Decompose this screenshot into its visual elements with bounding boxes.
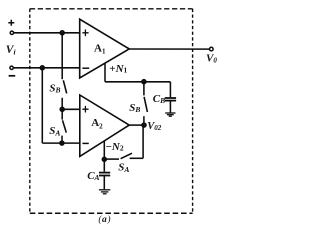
junction node N2 / CA — [102, 157, 106, 161]
output terminal Vo — [210, 47, 214, 51]
wire bottom rail to A2 inverting input — [42, 142, 80, 144]
svg-text:A1: A1 — [94, 42, 106, 55]
switch SB-right blade — [144, 97, 147, 112]
wire V02 drop to SA-right — [142, 125, 144, 158]
wire A1 output to Vo terminal — [129, 48, 209, 50]
dashed box left side — [29, 9, 31, 213]
switch SB-right top lead — [143, 82, 145, 96]
svg-text:V0: V0 — [206, 52, 217, 64]
wire Vi+ to A1 noninverting input — [14, 32, 80, 34]
junction node Vi- / left drop — [40, 66, 44, 70]
svg-text:Vi: Vi — [6, 44, 17, 56]
switch SB-left top lead — [61, 33, 63, 79]
wire N2 aux vertical from A2 bottom edge — [103, 141, 105, 160]
svg-text:CB: CB — [153, 93, 165, 105]
plus polarity mark at Vi+ — [8, 20, 14, 26]
op-amp A2 triangle — [80, 95, 129, 156]
switch SB-left blade — [63, 80, 66, 93]
input terminal Vi- — [10, 66, 13, 69]
ground symbol below CB — [165, 113, 175, 116]
capacitor CB top plate — [165, 97, 176, 99]
wire Vi- to A1 inverting input — [14, 67, 80, 69]
wire left vertical drop from Vi- node to bottom rail — [41, 68, 43, 143]
A1 noninverting input marker — [82, 30, 88, 37]
wire CA to ground — [103, 176, 105, 190]
svg-text:SB: SB — [49, 82, 60, 94]
wire CB corner drop — [169, 82, 171, 97]
A2 noninverting input marker — [82, 106, 88, 113]
wire CB to ground — [169, 101, 171, 113]
capacitor CA bottom plate — [99, 175, 110, 177]
svg-text:V02: V02 — [147, 121, 162, 132]
switch SA-left bottom lead — [61, 136, 63, 144]
switch SA-left blade — [63, 120, 67, 132]
switch SB-right bottom lead — [143, 116, 145, 125]
svg-text:(a): (a) — [98, 214, 110, 225]
svg-text:CA: CA — [87, 170, 99, 182]
wire N2 node to SA-right — [104, 158, 119, 160]
switch SA-left top lead — [61, 109, 63, 119]
input terminal Vi+ — [10, 31, 13, 34]
minus polarity mark at Vi- — [9, 75, 16, 77]
capacitor CB bottom plate — [165, 100, 176, 102]
junction node Vi+ / SB-left branch — [60, 31, 64, 35]
wire to A2 noninverting input — [62, 108, 80, 110]
op-amp A1 triangle — [80, 19, 130, 78]
svg-text:SA: SA — [49, 125, 60, 137]
wire SA-right fixed lead — [130, 157, 144, 159]
A2 inverting input marker — [82, 142, 88, 144]
junction node A2 noninverting input — [60, 107, 64, 111]
wire N1 aux vertical from A1 bottom edge — [104, 63, 106, 82]
junction node N1 rail / SB-right — [142, 80, 146, 84]
svg-text:+N1: +N1 — [109, 63, 127, 75]
junction node bottom rail / SA-left — [60, 141, 64, 145]
svg-text:SB: SB — [129, 102, 140, 114]
svg-text:A2: A2 — [91, 117, 103, 130]
A1 inverting input marker — [82, 67, 89, 69]
wire A2 output to V02 node — [129, 124, 144, 126]
wire CA stem upper — [103, 159, 105, 171]
dashed box top side — [30, 8, 193, 10]
switch SB-left bottom lead — [61, 98, 63, 110]
dashed box right side — [192, 9, 194, 213]
ground symbol below CA — [99, 190, 110, 194]
svg-text:−N2: −N2 — [106, 141, 124, 153]
wire N1 horizontal rail to CB — [105, 81, 170, 83]
capacitor CA top plate — [99, 172, 110, 174]
switch SA-right blade — [121, 153, 132, 159]
svg-text:SA: SA — [118, 162, 129, 174]
junction node V02 — [142, 123, 146, 127]
dashed box bottom side — [30, 212, 193, 214]
